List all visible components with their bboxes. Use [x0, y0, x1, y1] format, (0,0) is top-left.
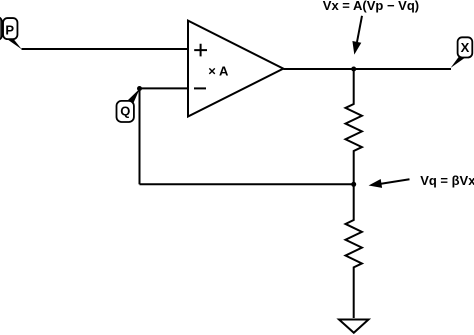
wire Q node to op-amp − input	[140, 87, 189, 89]
svg-text:X: X	[461, 40, 470, 55]
svg-text:Q: Q	[120, 104, 130, 119]
wire feedback horizontal	[140, 183, 354, 185]
node Q junction	[137, 86, 142, 91]
label Q	[117, 89, 140, 122]
svg-text:Vx = A(Vp − Vq): Vx = A(Vp − Vq)	[323, 0, 419, 13]
label P	[3, 18, 22, 49]
svg-text:P: P	[5, 22, 14, 37]
cut-off label at left edge	[0, 17, 2, 40]
wire P to op-amp + input	[22, 48, 189, 50]
ground	[339, 320, 369, 333]
svg-text:× A: × A	[208, 64, 229, 79]
op-amp U1	[188, 21, 283, 117]
node Vq	[351, 182, 356, 187]
svg-text:Vq = βVx: Vq = βVx	[420, 173, 474, 188]
wire op-amp output to X	[283, 68, 451, 70]
wire feedback vertical	[139, 88, 141, 184]
resistor R1	[346, 69, 362, 184]
node Vx	[351, 67, 356, 72]
arrow to node Vx	[352, 16, 362, 55]
label X	[451, 37, 473, 68]
resistor R2	[346, 184, 362, 318]
arrow to node Vq	[369, 179, 410, 188]
